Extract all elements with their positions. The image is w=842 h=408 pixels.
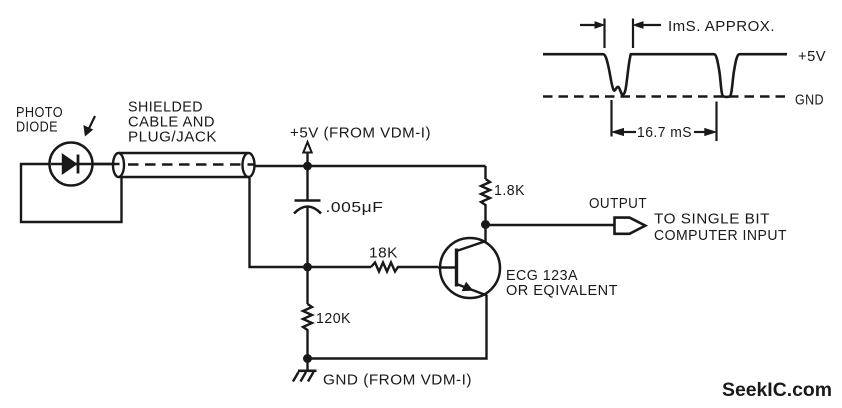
svg-text:OUTPUT: OUTPUT bbox=[589, 195, 647, 212]
svg-text:16.7 mS: 16.7 mS bbox=[637, 124, 692, 141]
svg-text:+5V (FROM VDM-I): +5V (FROM VDM-I) bbox=[290, 125, 431, 142]
svg-text:TO SINGLE BIT: TO SINGLE BIT bbox=[654, 211, 770, 228]
svg-text:ImS. APPROX.: ImS. APPROX. bbox=[668, 18, 775, 35]
svg-text:120K: 120K bbox=[316, 310, 351, 327]
svg-text:GND (FROM VDM-I): GND (FROM VDM-I) bbox=[323, 372, 472, 389]
svg-text:+5V: +5V bbox=[798, 48, 826, 65]
svg-text:SeekIC.com: SeekIC.com bbox=[722, 380, 832, 401]
svg-text:PLUG/JACK: PLUG/JACK bbox=[128, 129, 217, 146]
svg-text:DIODE: DIODE bbox=[16, 119, 58, 136]
svg-text:1.8K: 1.8K bbox=[494, 182, 525, 199]
svg-text:OR EQIVALENT: OR EQIVALENT bbox=[506, 282, 618, 299]
svg-text:18K: 18K bbox=[369, 245, 398, 262]
svg-text:.005μF: .005μF bbox=[326, 199, 384, 216]
svg-text:COMPUTER INPUT: COMPUTER INPUT bbox=[654, 227, 787, 244]
svg-text:GND: GND bbox=[795, 92, 824, 109]
